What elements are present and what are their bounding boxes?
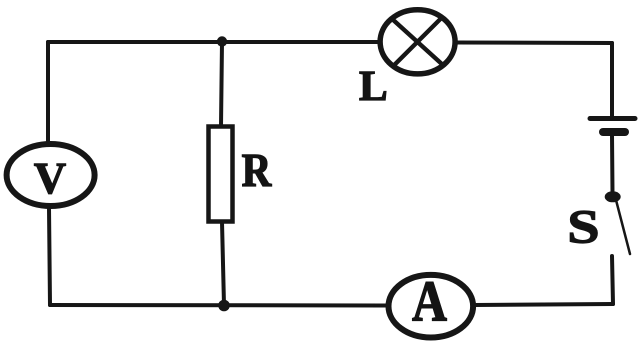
wire left vertical (voltmeter to bottom corner) [49,208,50,305]
voltmeter V1 [7,144,95,206]
wire bottom-right (ammeter to corner) [475,304,613,305]
wire left vertical (top corner to voltmeter) [46,42,50,143]
ammeter A1 [389,275,474,338]
wire right vertical (switch to bottom corner) [612,256,613,304]
wire right vertical (top corner to battery) [610,43,614,117]
label L (lamp) [360,72,386,100]
resistor R [209,127,233,222]
battery cell: long positive plate [590,116,635,121]
node bottom junction [218,300,230,312]
wire top-left (corner to junction to lamp) [48,40,378,44]
wire top-right (lamp to corner) [457,41,612,46]
lamp L (circle with X) [380,10,455,74]
wire right vertical (battery to switch) [610,135,615,193]
label R (resistor) [242,155,271,186]
label S (switch) [570,211,597,243]
battery cell: short negative plate [603,128,625,136]
node top junction [217,36,227,46]
label A (ammeter) [413,282,447,320]
switch S: open lever arm [616,200,630,254]
wire middle branch upper (junction to resistor) [221,42,222,126]
label V (voltmeter) [34,164,65,194]
wire bottom-left (corner to junction to ammeter) [50,303,387,308]
switch S: pivot contact dot [605,191,621,202]
wire middle branch lower (resistor to junction) [222,222,224,305]
